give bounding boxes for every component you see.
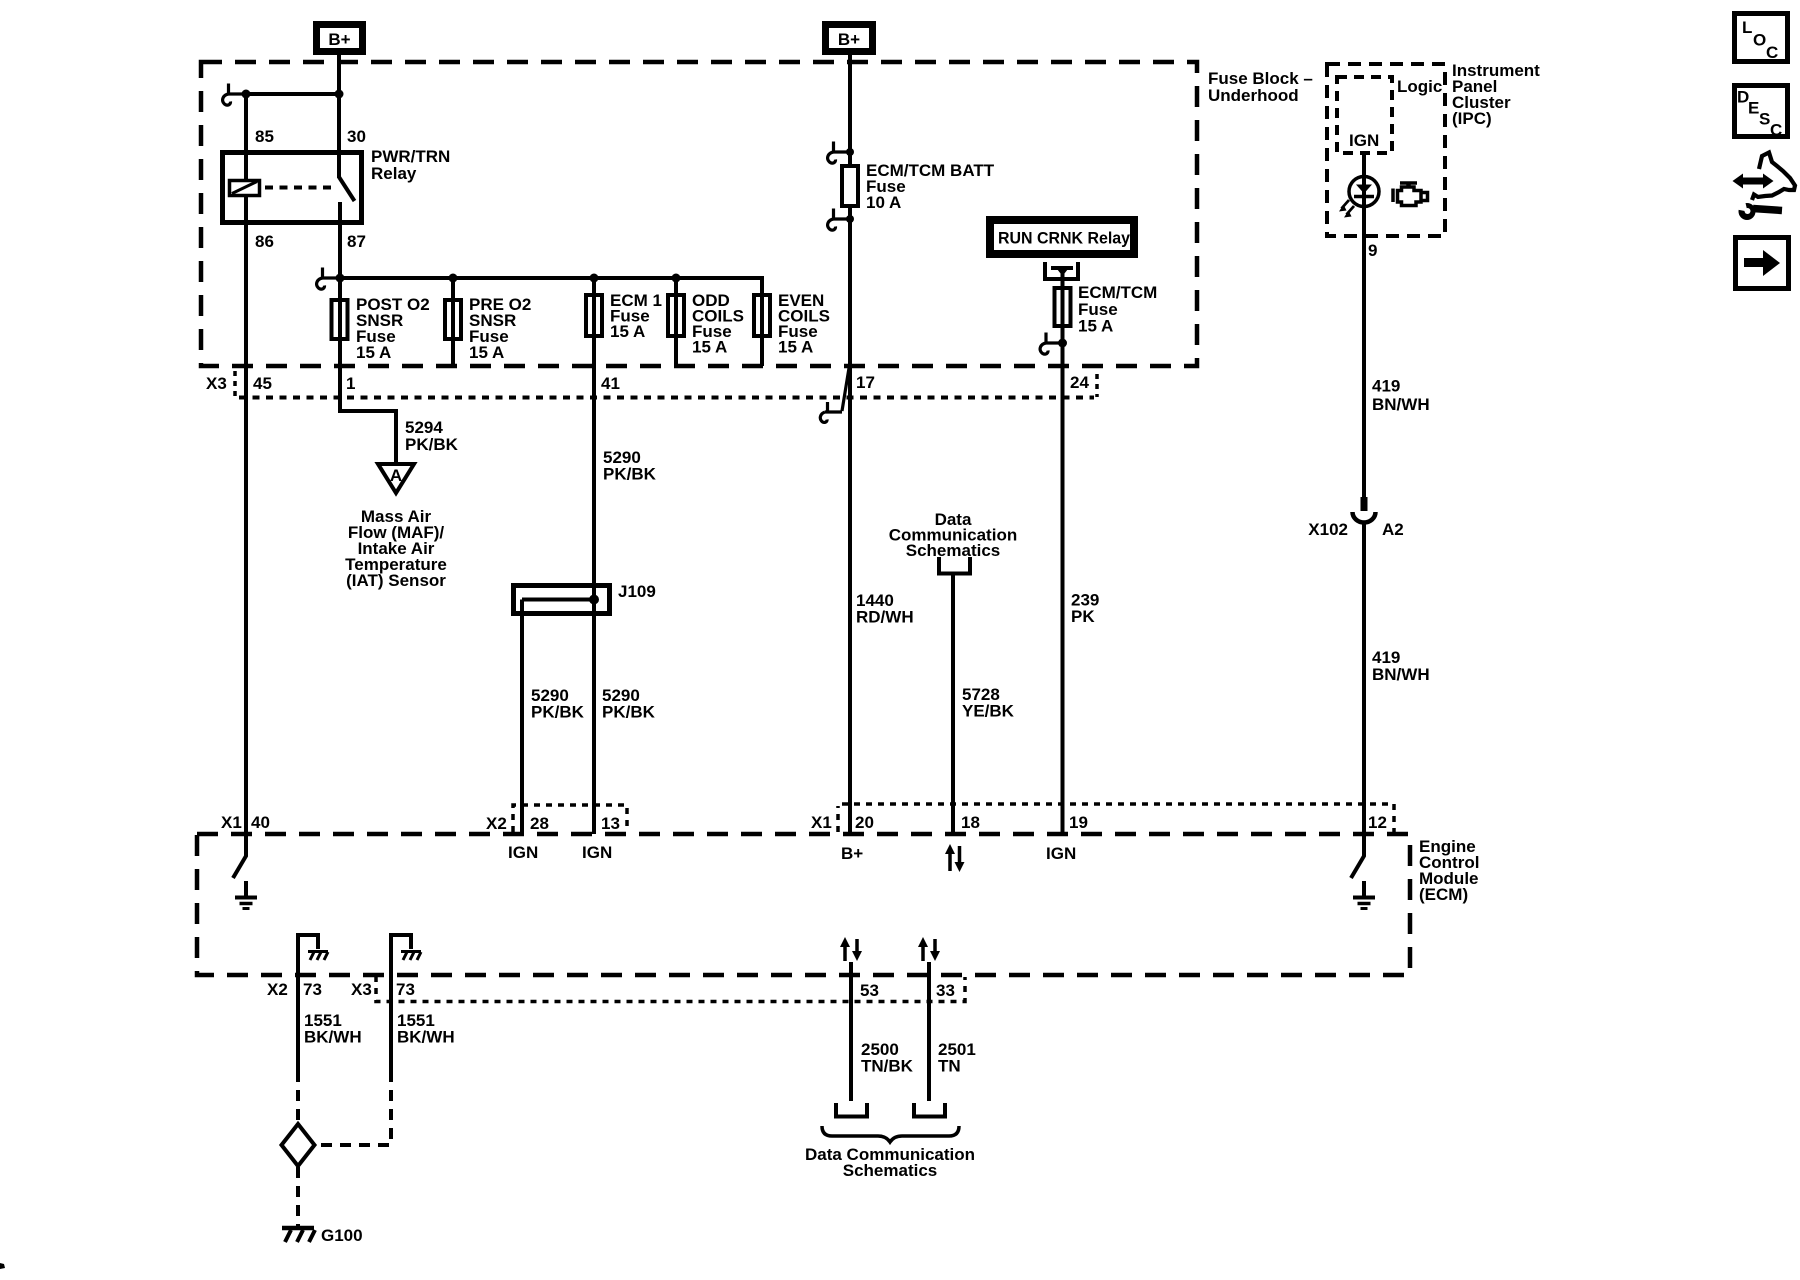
wire: B+ 1 to PWR/TRN relay pin 30 [337, 55, 341, 152]
wire: IGN driver to IPC pin 9 [1362, 153, 1366, 236]
svg-text:24: 24 [1070, 373, 1089, 392]
pin label X2 (upper) [486, 814, 507, 833]
fuse ECM/TCM BATT 10 A [842, 166, 858, 206]
svg-text:BK/WH: BK/WH [397, 1028, 455, 1047]
svg-text:30: 30 [347, 127, 366, 146]
svg-text:40: 40 [251, 813, 270, 832]
bidirectional arrows pin 33 [918, 937, 940, 961]
pin label X3 (bottom) [351, 980, 372, 999]
svg-text:C: C [1766, 43, 1778, 62]
label A2 [1382, 520, 1404, 539]
fuse ODD COILS 15 A [668, 295, 684, 336]
label CKT 5728 YE/BK [962, 685, 1015, 721]
label CKT 5290 PK/BK (right) [602, 686, 656, 722]
svg-text:419: 419 [1372, 377, 1400, 396]
wire: bus through ODD COILS fuse to connector [674, 278, 678, 366]
fuse POST O2 SNSR 15 A [332, 300, 348, 339]
pin label X3 [206, 374, 227, 393]
pin label X1 (left) [221, 813, 242, 832]
svg-text:53: 53 [860, 981, 879, 1000]
pin label 30 [347, 127, 366, 146]
pin 17 [856, 373, 875, 392]
connector row bottom dotted [376, 976, 965, 1002]
svg-text:X3: X3 [351, 980, 372, 999]
svg-text:9: 9 [1368, 241, 1377, 260]
label IGN (pin 19) [1046, 844, 1076, 863]
label CKT 2500 TN/BK [861, 1040, 914, 1076]
fuse ECM 1 15 A [586, 295, 602, 336]
dashed splice branch right [317, 1071, 391, 1145]
svg-text:X2: X2 [267, 980, 288, 999]
pin 41 [601, 374, 620, 393]
power feed B+ 1 [317, 25, 363, 52]
svg-text:J109: J109 [618, 582, 656, 601]
label: Instrument Panel Cluster (IPC) [1452, 61, 1540, 128]
relay coil [230, 181, 260, 196]
wire: ECM pin 73 X3 (CKT 1551) [389, 975, 393, 1071]
dashed wire to G100 [296, 1167, 300, 1226]
svg-text:73: 73 [303, 980, 322, 999]
engine icon (check engine MIL) [1393, 183, 1428, 206]
pin 1 [346, 374, 355, 393]
svg-text:IGN: IGN [582, 843, 612, 862]
svg-text:(IPC): (IPC) [1452, 109, 1492, 128]
fuse EVEN COILS 15 A [754, 295, 770, 336]
off-page curl below ECM/TCM BATT fuse [828, 209, 854, 231]
svg-text:PK/BK: PK/BK [602, 703, 656, 722]
off-page curl (top left splice) [223, 84, 246, 106]
sidebar icon LOC [1735, 14, 1788, 63]
label: POST O2 SNSR Fuse 15 A [356, 295, 430, 362]
label IGN [1349, 131, 1379, 150]
svg-text:BN/WH: BN/WH [1372, 665, 1430, 684]
svg-text:13: 13 [601, 814, 620, 833]
off-page curl (bus left end) [317, 268, 340, 290]
label CKT 419 BN/WH (lower) [1372, 648, 1430, 684]
power feed B+ 2 [826, 25, 873, 52]
svg-text:TN/BK: TN/BK [861, 1057, 914, 1076]
label: Fuse Block - Underhood [1208, 69, 1313, 105]
sidebar icon connector repair (arrows and wrench) [1732, 153, 1796, 221]
label: PWR/TRN Relay [371, 147, 450, 183]
pin 40 [251, 813, 270, 832]
svg-text:PK: PK [1071, 607, 1095, 626]
svg-text:28: 28 [530, 814, 549, 833]
pin 73 (X3) [396, 980, 415, 999]
svg-text:15 A: 15 A [356, 343, 391, 362]
svg-text:(ECM): (ECM) [1419, 885, 1468, 904]
wire: ECM pin 73 X2 (CKT 1551) [296, 975, 300, 1071]
label CKT 1551 BK/WH (right) [397, 1011, 455, 1047]
svg-text:Relay: Relay [371, 164, 417, 183]
svg-text:PK/BK: PK/BK [603, 465, 657, 484]
svg-text:C: C [1770, 121, 1782, 140]
label: PRE O2 SNSR Fuse 15 A [469, 295, 531, 362]
svg-text:O: O [1753, 31, 1766, 50]
svg-text:L: L [1742, 18, 1752, 37]
off-page jog at pin 17 [820, 368, 849, 422]
pin 18 [961, 813, 980, 832]
connector tick X3 [233, 371, 237, 397]
bidirectional arrows pin 53 [840, 937, 862, 961]
svg-text:A2: A2 [1382, 520, 1404, 539]
label CKT 5294 PK/BK [405, 418, 459, 454]
sidebar icon DESC [1735, 86, 1788, 140]
svg-text:PK/BK: PK/BK [405, 435, 459, 454]
svg-text:85: 85 [255, 127, 274, 146]
svg-text:87: 87 [347, 232, 366, 251]
label CKT 5290 PK/BK (upper) [603, 448, 657, 484]
svg-text:17: 17 [856, 373, 875, 392]
pin 19 [1069, 813, 1088, 832]
wire: ECM pin 33 (CKT 2501) [927, 962, 931, 1101]
off-page curl above ECM/TCM BATT fuse [828, 142, 854, 164]
pin label 87 [347, 232, 366, 251]
svg-text:1: 1 [346, 374, 355, 393]
svg-text:(IAT) Sensor: (IAT) Sensor [346, 571, 446, 590]
relay switch blade [339, 177, 355, 201]
label: ECM/TCM Fuse 15 A [1078, 283, 1157, 336]
wire: relay pin 87 through POST O2 fuse to MAF connector (CKT 5294) [340, 202, 396, 463]
ECM connector X2 dotted box [513, 805, 627, 832]
splice diamond [282, 1124, 315, 1166]
junction dot at pin 85 drop [242, 90, 251, 99]
connector row X3 (dotted) [239, 396, 1094, 400]
off-page bracket pin 33 [914, 1103, 945, 1117]
inline connector X102 pin A2 [1353, 497, 1376, 523]
MAF/IAT connector triangle A [378, 464, 414, 493]
svg-text:Schematics: Schematics [906, 541, 1001, 560]
pin 45 [253, 374, 272, 393]
label CKT 5290 PK/BK (left) [531, 686, 585, 722]
ECM connector X1 dotted box [838, 804, 1394, 832]
label: ODD COILS Fuse 15 A [692, 291, 744, 357]
wire: bus through PRE O2 fuse to connector [451, 278, 455, 366]
svg-text:15 A: 15 A [469, 343, 504, 362]
label IGN (pin 28) [508, 843, 538, 862]
wire: IPC pin 9 to X102 (CKT 419) [1362, 236, 1366, 497]
wire: relay pin 85 lead [244, 94, 248, 181]
relay pin 30 internal lead [337, 150, 341, 178]
svg-text:15 A: 15 A [610, 322, 645, 341]
svg-text:IGN: IGN [1349, 131, 1379, 150]
svg-text:X2: X2 [486, 814, 507, 833]
pin 24 [1070, 373, 1089, 392]
svg-text:YE/BK: YE/BK [962, 702, 1015, 721]
svg-text:15 A: 15 A [778, 338, 813, 357]
page mark bottom left [0, 1263, 5, 1269]
relay linkage (dashed) [265, 186, 333, 190]
wire: splice to relay pin 85 (horizontal) [246, 92, 339, 96]
svg-text:Schematics: Schematics [843, 1161, 938, 1180]
label CKT 419 BN/WH (upper) [1372, 377, 1430, 415]
svg-text:BN/WH: BN/WH [1372, 395, 1430, 414]
wire: ECM/TCM fuse to ECM pin 19 (CKT 239) [1061, 269, 1065, 834]
label CKT 1551 BK/WH (left) [304, 1011, 362, 1047]
dashed splice branch left [296, 1071, 300, 1121]
off-page curl below ECM/TCM fuse [1040, 333, 1067, 355]
label: ECM/TCM BATT Fuse 10 A [866, 161, 995, 212]
wire: ECM pin 53 (CKT 2500) [849, 962, 853, 1101]
label B+ (pin 20) [841, 844, 863, 863]
svg-text:PK/BK: PK/BK [531, 703, 585, 722]
svg-text:33: 33 [936, 981, 955, 1000]
svg-text:41: 41 [601, 374, 620, 393]
svg-text:A: A [390, 466, 402, 485]
svg-text:12: 12 [1368, 813, 1387, 832]
junction dot bus ODD COILS tap [672, 274, 681, 283]
label: Engine Control Module (ECM) [1419, 837, 1479, 904]
svg-text:B+: B+ [328, 30, 350, 49]
label: EVEN COILS Fuse 15 A [778, 291, 830, 357]
ECM internal ground at pin 12 [1351, 834, 1375, 909]
off-page bracket (pin 18 branch) [939, 557, 970, 574]
wire: bus through ECM 1 fuse to J109 and ECM pin 13 (CKT 5290) [592, 278, 596, 834]
ECM enclosure (dashed) [197, 834, 1410, 975]
wire: ECM/TCM BATT fuse to ECM pin 20 (CKT 1440) [848, 206, 852, 834]
pin 33 [936, 981, 955, 1000]
svg-text:RUN CRNK Relay: RUN CRNK Relay [998, 229, 1131, 248]
svg-text:10 A: 10 A [866, 193, 901, 212]
fuse supply bus from relay pin 87 through EVEN COILS fuse [340, 278, 762, 366]
fuse block underhood enclosure (dashed) [201, 62, 1197, 366]
junction dot at pin 30 drop [335, 90, 344, 99]
pin label X2 (bottom) [267, 980, 288, 999]
pin 28 [530, 814, 549, 833]
pin label 86 [255, 232, 274, 251]
off-page bracket pin 53 [836, 1103, 867, 1117]
wire: J109 to ECM pin 28 (CKT 5290) [520, 600, 524, 835]
pin 53 [860, 981, 879, 1000]
svg-text:86: 86 [255, 232, 274, 251]
ground G100 [282, 1226, 363, 1245]
brace: data communication group [822, 1126, 959, 1142]
IGN logic box (dashed) [1337, 77, 1392, 153]
fuse ECM/TCM 15 A [1055, 288, 1071, 326]
svg-text:Underhood: Underhood [1208, 86, 1299, 105]
pin 9 [1368, 241, 1377, 260]
label X102 [1308, 520, 1348, 539]
IPC enclosure (dashed) [1327, 64, 1445, 236]
sidebar icon forward arrow [1736, 238, 1789, 289]
RUN CRNK Relay label box [990, 220, 1134, 254]
svg-text:TN: TN [938, 1057, 961, 1076]
label CKT 1440 RD/WH [856, 591, 914, 627]
svg-text:RD/WH: RD/WH [856, 608, 914, 627]
label: ECM 1 Fuse 15 A [610, 291, 662, 341]
label: Mass Air Flow (MAF)/Intake Air Temperature (IAT) Sensor [345, 507, 447, 590]
svg-text:BK/WH: BK/WH [304, 1028, 362, 1047]
label CKT 2501 TN [938, 1040, 976, 1076]
pin label 85 [255, 127, 274, 146]
svg-text:X3: X3 [206, 374, 227, 393]
RUN CRNK relay output terminal bracket [1045, 262, 1078, 288]
svg-text:19: 19 [1069, 813, 1088, 832]
junction dot bus ECM 1 tap [590, 274, 599, 283]
bidirectional arrows pin 18 [945, 844, 965, 872]
pin 12 [1368, 813, 1387, 832]
fuse PRE O2 SNSR 15 A [445, 300, 461, 339]
indicator LED [1339, 177, 1379, 218]
svg-text:B+: B+ [841, 844, 863, 863]
svg-text:B+: B+ [838, 30, 860, 49]
svg-text:73: 73 [396, 980, 415, 999]
svg-text:X102: X102 [1308, 520, 1348, 539]
svg-text:IGN: IGN [508, 843, 538, 862]
pin 20 [855, 813, 874, 832]
ECM ground pigtail X3-73 [391, 935, 421, 975]
label: Data Communication Schematics (upper) [889, 510, 1017, 560]
wire: X102 to ECM pin 12 (CKT 419) [1362, 523, 1366, 835]
svg-text:Logic: Logic [1397, 77, 1442, 96]
pin 13 [601, 814, 620, 833]
label IGN (pin 13) [582, 843, 612, 862]
ECM internal ground at pin 40 [233, 834, 257, 909]
label: Data Communication Schematics (bottom) [805, 1145, 975, 1180]
PWR/TRN relay box [223, 153, 362, 223]
wire: relay pin 86 to ECM pin 40 (CKT 5069) [244, 195, 248, 834]
ECM ground pigtail X2-73 [298, 935, 328, 975]
svg-text:45: 45 [253, 374, 272, 393]
svg-text:15 A: 15 A [1078, 317, 1113, 336]
pin 73 (X2) [303, 980, 322, 999]
label Logic [1397, 77, 1442, 96]
svg-text:18: 18 [961, 813, 980, 832]
svg-text:E: E [1748, 99, 1759, 118]
svg-text:X1: X1 [811, 813, 832, 832]
svg-text:15 A: 15 A [692, 338, 727, 357]
svg-text:G100: G100 [321, 1226, 363, 1245]
junction block J109 [514, 582, 656, 614]
pin label X1 (right) [811, 813, 832, 832]
junction dot bus PRE O2 tap [449, 274, 458, 283]
svg-text:X1: X1 [221, 813, 242, 832]
label CKT 239 PK [1071, 591, 1099, 627]
connector tick right of pin 24 [1095, 374, 1099, 397]
svg-text:IGN: IGN [1046, 844, 1076, 863]
wire: B+ 2 to ECM/TCM BATT fuse [848, 55, 852, 166]
wire: bracket to ECM pin 18 (CKT 5728) [951, 576, 955, 835]
junction dot bus at pin 87 [336, 274, 345, 283]
svg-text:S: S [1759, 110, 1770, 129]
svg-text:20: 20 [855, 813, 874, 832]
